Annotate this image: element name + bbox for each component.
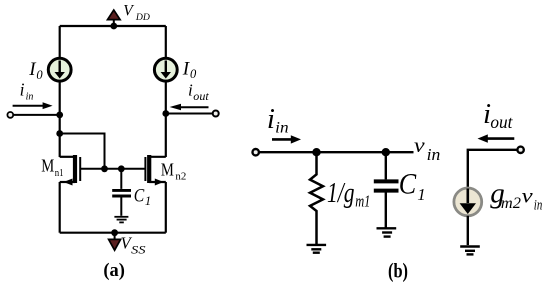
- capacitor C1: [112, 169, 131, 216]
- label gm2 vin: [490, 178, 542, 214]
- arrow i_out (b): [478, 134, 515, 142]
- label VDD: [123, 2, 150, 23]
- label i_out (b): [483, 98, 514, 132]
- svg-text:in: in: [534, 198, 543, 214]
- svg-text:i: i: [188, 81, 193, 100]
- svg-text:0: 0: [36, 68, 43, 82]
- terminal output: [213, 111, 219, 117]
- node VDD junction: [110, 23, 117, 30]
- node resistor junction (b): [312, 148, 320, 156]
- wire top rail: [60, 25, 166, 27]
- label M_n1: [41, 156, 63, 179]
- svg-text:n2: n2: [175, 170, 186, 182]
- current source I0 (right): [154, 58, 177, 81]
- wire input: [13, 114, 60, 116]
- ground under resistor (b): [307, 245, 327, 253]
- wire left rail mid: [59, 83, 61, 158]
- wire bottom rail: [60, 232, 166, 234]
- node input junction: [56, 112, 63, 119]
- node capacitor junction: [118, 165, 125, 172]
- VSS supply symbol: [109, 233, 121, 251]
- wire right rail upper: [165, 26, 167, 57]
- VDD supply symbol: [108, 10, 121, 26]
- label i_in: [20, 80, 34, 103]
- label 1/gm1: [327, 177, 370, 211]
- wire node v_in: [260, 151, 414, 153]
- arrow i_in: [13, 102, 53, 109]
- wire output (b): [468, 150, 517, 187]
- wire source to ground (b): [467, 216, 469, 245]
- dependent source gm2*vin: [454, 188, 482, 216]
- ground under C1: [114, 217, 128, 223]
- label I0 right: [182, 58, 197, 81]
- svg-text:(a): (a): [103, 260, 125, 281]
- svg-text:(b): (b): [388, 259, 408, 283]
- svg-text:C: C: [134, 186, 145, 207]
- current source I0 (left): [48, 58, 71, 81]
- svg-text:in: in: [427, 145, 441, 164]
- svg-text:in: in: [275, 120, 288, 137]
- label M_n2: [161, 159, 186, 182]
- arrow i_out: [170, 104, 209, 110]
- svg-text:in: in: [26, 92, 34, 103]
- svg-text:DD: DD: [135, 13, 150, 23]
- svg-text:C: C: [399, 169, 417, 201]
- svg-text:out: out: [490, 112, 513, 132]
- label i_out: [188, 81, 209, 104]
- svg-text:m2: m2: [501, 195, 521, 212]
- wire output: [166, 113, 213, 115]
- ground under C1 (b): [377, 228, 397, 236]
- wire right rail mid: [165, 83, 167, 158]
- arrow i_in (b): [272, 135, 301, 143]
- node VSS junction: [111, 229, 118, 236]
- svg-text:i: i: [267, 103, 275, 135]
- svg-text:v: v: [414, 133, 425, 157]
- node output junction: [162, 110, 169, 117]
- svg-text:SS: SS: [131, 245, 146, 257]
- svg-text:M: M: [161, 159, 174, 179]
- svg-text:i: i: [20, 80, 25, 100]
- capacitor C1 (b): [374, 152, 399, 227]
- terminal input (b): [253, 149, 259, 155]
- label i_in (b): [267, 103, 289, 137]
- wire gate line: [80, 168, 145, 170]
- node gate junction: [101, 165, 108, 172]
- wire right rail lower: [165, 182, 167, 233]
- svg-text:0: 0: [190, 67, 197, 81]
- wire left rail lower: [59, 182, 61, 233]
- svg-text:v: v: [522, 183, 534, 207]
- svg-text:V: V: [123, 2, 134, 19]
- resistor 1/gm1: [310, 152, 323, 244]
- svg-text:out: out: [193, 89, 209, 103]
- transistor M_n2: [145, 155, 165, 186]
- svg-text:n1: n1: [55, 167, 64, 179]
- transistor M_n1: [60, 155, 80, 186]
- label VSS: [121, 234, 146, 257]
- label I0 left: [28, 59, 43, 82]
- label C1 (b): [399, 169, 426, 205]
- svg-text:m1: m1: [355, 192, 370, 211]
- svg-text:1/g: 1/g: [327, 177, 355, 209]
- svg-text:M: M: [41, 156, 54, 176]
- svg-text:1: 1: [417, 185, 426, 204]
- wire diode connection: [60, 134, 105, 169]
- label C1: [134, 186, 151, 208]
- label v_in: [414, 133, 440, 164]
- wire left rail upper: [59, 26, 61, 57]
- node capacitor junction (b): [382, 148, 390, 156]
- terminal input: [7, 112, 13, 118]
- ground under source (b): [460, 247, 480, 255]
- node gate-drain junction: [56, 130, 63, 137]
- svg-text:1: 1: [145, 194, 151, 208]
- terminal output (b): [517, 147, 523, 153]
